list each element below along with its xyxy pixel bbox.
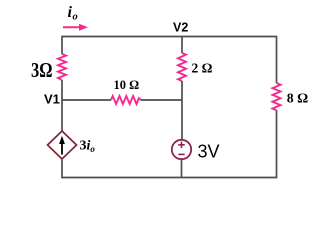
- resistor R 8ohm: [273, 83, 281, 110]
- voltage source 3V (circle): [172, 140, 191, 159]
- svg-text:V2: V2: [173, 21, 188, 35]
- wire middle horizontal right part: [141, 99, 182, 101]
- wire right branch upper: [276, 36, 278, 83]
- wire top (node V2 rail): [62, 36, 277, 38]
- wire left branch lower: [61, 159, 63, 178]
- wire middle branch lower: [181, 159, 183, 177]
- svg-text:3Ω: 3Ω: [31, 58, 53, 82]
- wire middle branch upper: [181, 37, 183, 54]
- svg-text:10 Ω: 10 Ω: [114, 78, 140, 92]
- wire bottom rail: [62, 177, 277, 179]
- minus sign of 3V source: [178, 153, 184, 155]
- svg-text:2 Ω: 2 Ω: [192, 61, 213, 76]
- resistor R 3ohm: [58, 54, 66, 80]
- wire right branch lower: [276, 110, 278, 178]
- current arrow io: [63, 26, 81, 28]
- resistor R 10ohm: [111, 96, 141, 104]
- wire middle branch to source: [181, 100, 183, 140]
- svg-text:8 Ω: 8 Ω: [287, 91, 308, 106]
- wire left branch upper: [61, 36, 63, 54]
- dependent current source 3io (diamond): [48, 131, 77, 159]
- wire middle branch mid: [181, 81, 183, 100]
- plus sign of 3V source: [178, 142, 184, 148]
- wire middle horizontal (V1 to middle branch): [62, 99, 111, 101]
- resistor R 2ohm: [178, 53, 186, 81]
- svg-text:3V: 3V: [198, 142, 220, 162]
- arrow inside dependent source: [61, 142, 63, 155]
- wire left branch middle (to node V1): [61, 80, 63, 132]
- svg-text:V1: V1: [44, 92, 60, 107]
